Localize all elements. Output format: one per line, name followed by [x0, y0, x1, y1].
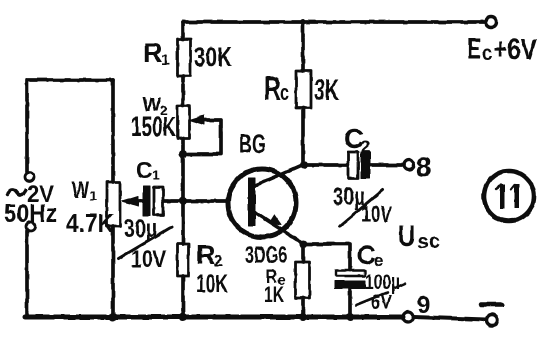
svg-text:2: 2 — [214, 253, 223, 270]
svg-text:3K: 3K — [314, 74, 339, 107]
svg-text:sc: sc — [417, 231, 440, 253]
svg-text:6V: 6V — [371, 291, 392, 314]
svg-text:R: R — [143, 38, 163, 68]
svg-text:4.7K: 4.7K — [66, 208, 114, 238]
svg-text:9: 9 — [417, 292, 430, 319]
svg-text:W: W — [72, 177, 89, 204]
svg-text:150K: 150K — [131, 111, 176, 142]
svg-text:30µ: 30µ — [124, 215, 157, 243]
svg-text:10V: 10V — [131, 246, 166, 273]
svg-text:1: 1 — [161, 52, 170, 69]
svg-text:c: c — [482, 42, 492, 65]
svg-text:8: 8 — [416, 152, 431, 182]
svg-text:c: c — [280, 80, 289, 105]
svg-text:50Hz: 50Hz — [4, 200, 57, 228]
svg-text:10K: 10K — [196, 270, 228, 298]
svg-text:BG: BG — [239, 129, 266, 159]
svg-text:E: E — [467, 31, 481, 66]
svg-text:2: 2 — [361, 137, 370, 156]
svg-text:1: 1 — [152, 167, 160, 183]
svg-text:1K: 1K — [264, 282, 284, 307]
svg-text:R: R — [196, 240, 216, 270]
svg-text:1: 1 — [89, 187, 97, 203]
svg-text:e: e — [374, 251, 383, 270]
svg-text:C: C — [136, 157, 153, 183]
svg-text:10V: 10V — [361, 201, 392, 227]
svg-text:R: R — [264, 70, 281, 108]
svg-text:+6V: +6V — [493, 34, 538, 66]
svg-text:3DG6: 3DG6 — [245, 242, 287, 269]
svg-text:U: U — [398, 220, 415, 253]
svg-text:30K: 30K — [194, 42, 232, 72]
